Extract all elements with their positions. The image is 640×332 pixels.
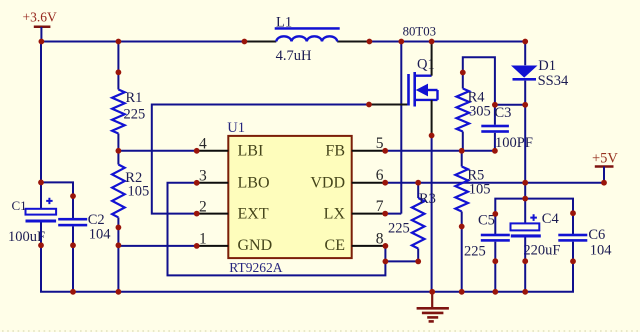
wire VDD pin6 to +5V [385,182,604,184]
wire C3 to D1 cathode node [495,104,525,106]
node dot D1 cathode junction [522,102,528,108]
resistor R5 [455,151,468,292]
wire source to ground rail [431,136,433,292]
resistor R3 [412,183,425,262]
IC U1 RT9262A [228,136,351,258]
node dot C4 column at VDD rail [522,180,528,186]
pin 3 stub [197,182,229,184]
node dot C4 bottom pin [522,258,528,264]
svg-text:+5V: +5V [592,150,618,166]
wire C3 bottom [494,133,496,151]
svg-text:SS34: SS34 [538,73,569,89]
transistor Q1 [409,72,438,107]
node dot C2 bottom pin [70,242,76,248]
node dot C2 branch junction [38,180,44,186]
node dot C2 top pin [70,193,76,199]
svg-text:RT9262A: RT9262A [229,260,282,275]
pin 6 stub [352,182,386,184]
pin 8 stub [352,245,386,247]
node dot R5 bottom pin [459,224,465,230]
diode D1 anode wire [524,42,526,66]
svg-text:C3: C3 [495,105,512,121]
node dot C1 bottom pin [38,242,44,248]
svg-text:225: 225 [464,244,486,260]
transistor Q1 gate pin [369,104,409,106]
wire R1 bottom to R2 top [117,134,119,165]
node dot R2 column at ground rail [116,289,122,295]
wire C6 bottom [572,242,574,292]
node dot C5 top pin [492,211,498,217]
node dot +5V stem [601,180,607,186]
pin 5 stub [352,150,386,152]
power +3.6V [23,10,57,42]
svg-text:105: 105 [128,184,150,200]
node dot L1 left pin [242,39,248,45]
capacitor C5 [481,234,510,242]
svg-text:4.7uH: 4.7uH [276,48,312,64]
node dot pin 5 end [382,148,388,154]
node dot pin 7 end [382,211,388,217]
svg-text:5: 5 [376,135,384,152]
capacitor C1 [26,198,57,223]
wire R1 top [117,42,119,90]
svg-text:L1: L1 [276,15,292,31]
node dot L1 right pin [367,39,373,45]
wire LX pin7 [385,213,401,215]
svg-text:U1: U1 [227,120,245,136]
wire CE to R3 bottom [385,260,418,262]
wire LBO pin3 to CE pin8 [168,183,386,276]
node dot R2 bottom pin [116,225,122,231]
svg-text:VDD: VDD [310,175,345,192]
wire FB pin5 [385,150,495,152]
svg-text:LBI: LBI [238,143,264,160]
wire LX vertical to top rail [400,42,402,214]
svg-text:C1: C1 [12,198,27,213]
node dot R3 top VDD junction [415,180,421,186]
wire GND pin1 [118,245,196,247]
svg-text:LX: LX [324,205,346,222]
node dot pin 3 end [194,180,200,186]
svg-text:7: 7 [376,198,384,215]
wire R4 C3 top elbow [463,57,495,125]
svg-text:EXT: EXT [238,205,269,222]
svg-text:6: 6 [376,167,384,184]
svg-text:225: 225 [388,221,410,237]
transistor Q1 source pin [431,100,433,136]
node dot C5 at ground rail [492,289,498,295]
inductor L1 pin right [337,41,369,43]
wire branch to C2 [41,182,73,219]
svg-text:LBO: LBO [238,175,270,192]
svg-text:80T03: 80T03 [403,25,436,39]
transistor Q1 drain pin [431,42,433,76]
svg-text:CE: CE [325,237,345,254]
capacitor C3 [481,125,509,133]
svg-text:104: 104 [590,243,613,259]
node dot C2 at ground rail [70,289,76,295]
pin 2 stub [197,213,229,215]
capacitor C2 [58,218,87,227]
node dot pin 2 end [194,211,200,217]
node dot D1 anode at rail [522,39,528,45]
resistor R2 [112,165,125,218]
wire C5 top pin [494,214,496,234]
node dot C6 bottom pin [570,258,576,264]
node dot Q1 drain at rail [429,39,435,45]
inductor L1 pin left [244,41,276,43]
node dot top rail R1 branch [116,39,122,45]
svg-text:2: 2 [199,198,207,215]
node dot LX vertical at rail [398,39,404,45]
node dot R5 top FB junction [459,148,465,154]
svg-text:100uF: 100uF [8,229,45,245]
wire bottom ground rail [40,291,574,293]
node dot C3 top junction [492,102,498,108]
resistor R1 [112,90,125,134]
wire LBI pin4 [118,150,196,152]
svg-text:C5: C5 [478,213,495,229]
node dot pin 1 end [194,243,200,249]
node dot C5 bottom pin [492,258,498,264]
svg-text:GND: GND [238,237,273,254]
svg-text:R3: R3 [419,191,436,207]
diode D1 SS34 [511,66,538,81]
wire D1 cathode down to C4 [524,81,526,224]
svg-text:+3.6V: +3.6V [23,10,57,25]
node dot pin 4 end [194,148,200,154]
node dot C4 column at C5C6 link [522,196,528,202]
wire below C1 [40,223,42,292]
wire below C2 [72,226,74,291]
node dot C3 bottom FB junction [492,148,498,154]
node dot pin 8 end [383,243,389,249]
svg-text:8: 8 [376,230,384,247]
node dot LBI divider junction [116,148,122,154]
resistor R4 [456,89,469,132]
pin 1 stub [197,245,229,247]
node dot Q1 source pin end [429,133,435,139]
ground [417,292,449,322]
pin 4 stub [197,150,229,152]
wire C6 top pin [572,213,574,234]
svg-text:225: 225 [124,106,146,122]
node dot R3 bottom pin [415,259,421,265]
node dot pin 6 end [382,180,388,186]
svg-text:4: 4 [199,136,207,153]
pin 7 stub [352,213,386,215]
wire C5 C6 top link [495,199,573,214]
node dot top rail at +3.6V [39,39,45,45]
node dot R1 top pin [116,69,122,75]
node dot C4 at ground rail [522,289,528,295]
node dot R5 at ground rail [459,289,465,295]
wire top rail right [369,41,525,43]
svg-text:C4: C4 [542,211,560,227]
node dot GND wire junction [116,242,122,248]
wire C5 bottom [494,242,496,292]
node dot C6 top pin [570,210,576,216]
wire left vertical from +3.6V to C1 [40,42,42,210]
svg-text:3: 3 [199,168,207,185]
inductor L1 [275,27,340,41]
svg-text:100PF: 100PF [495,135,533,151]
node dot CE branch junction [383,259,389,265]
wire R4 bottom [462,132,464,151]
wire EXT pin2 to gate [152,105,369,214]
svg-text:1: 1 [199,231,207,248]
capacitor C4 220uF [511,214,541,237]
power +5V [592,150,618,182]
node dot Q1 gate pin end [366,102,372,108]
svg-text:D1: D1 [538,58,556,74]
capacitor C6 [558,234,587,242]
svg-text:104: 104 [89,227,112,243]
wire top rail left [41,41,244,43]
svg-text:105: 105 [469,182,491,198]
node dot ground symbol junction [429,289,435,295]
wire C4 bottom [524,238,526,292]
svg-text:220uF: 220uF [523,243,560,259]
svg-text:C6: C6 [588,227,605,243]
svg-text:FB: FB [325,143,345,160]
svg-text:C2: C2 [88,212,105,228]
svg-text:305: 305 [469,103,491,119]
faint grid dots bottom edge [2,330,640,332]
wire R2 bottom to rail [117,218,119,292]
svg-text:R1: R1 [126,90,143,106]
node dot R4 top pin [460,70,466,76]
